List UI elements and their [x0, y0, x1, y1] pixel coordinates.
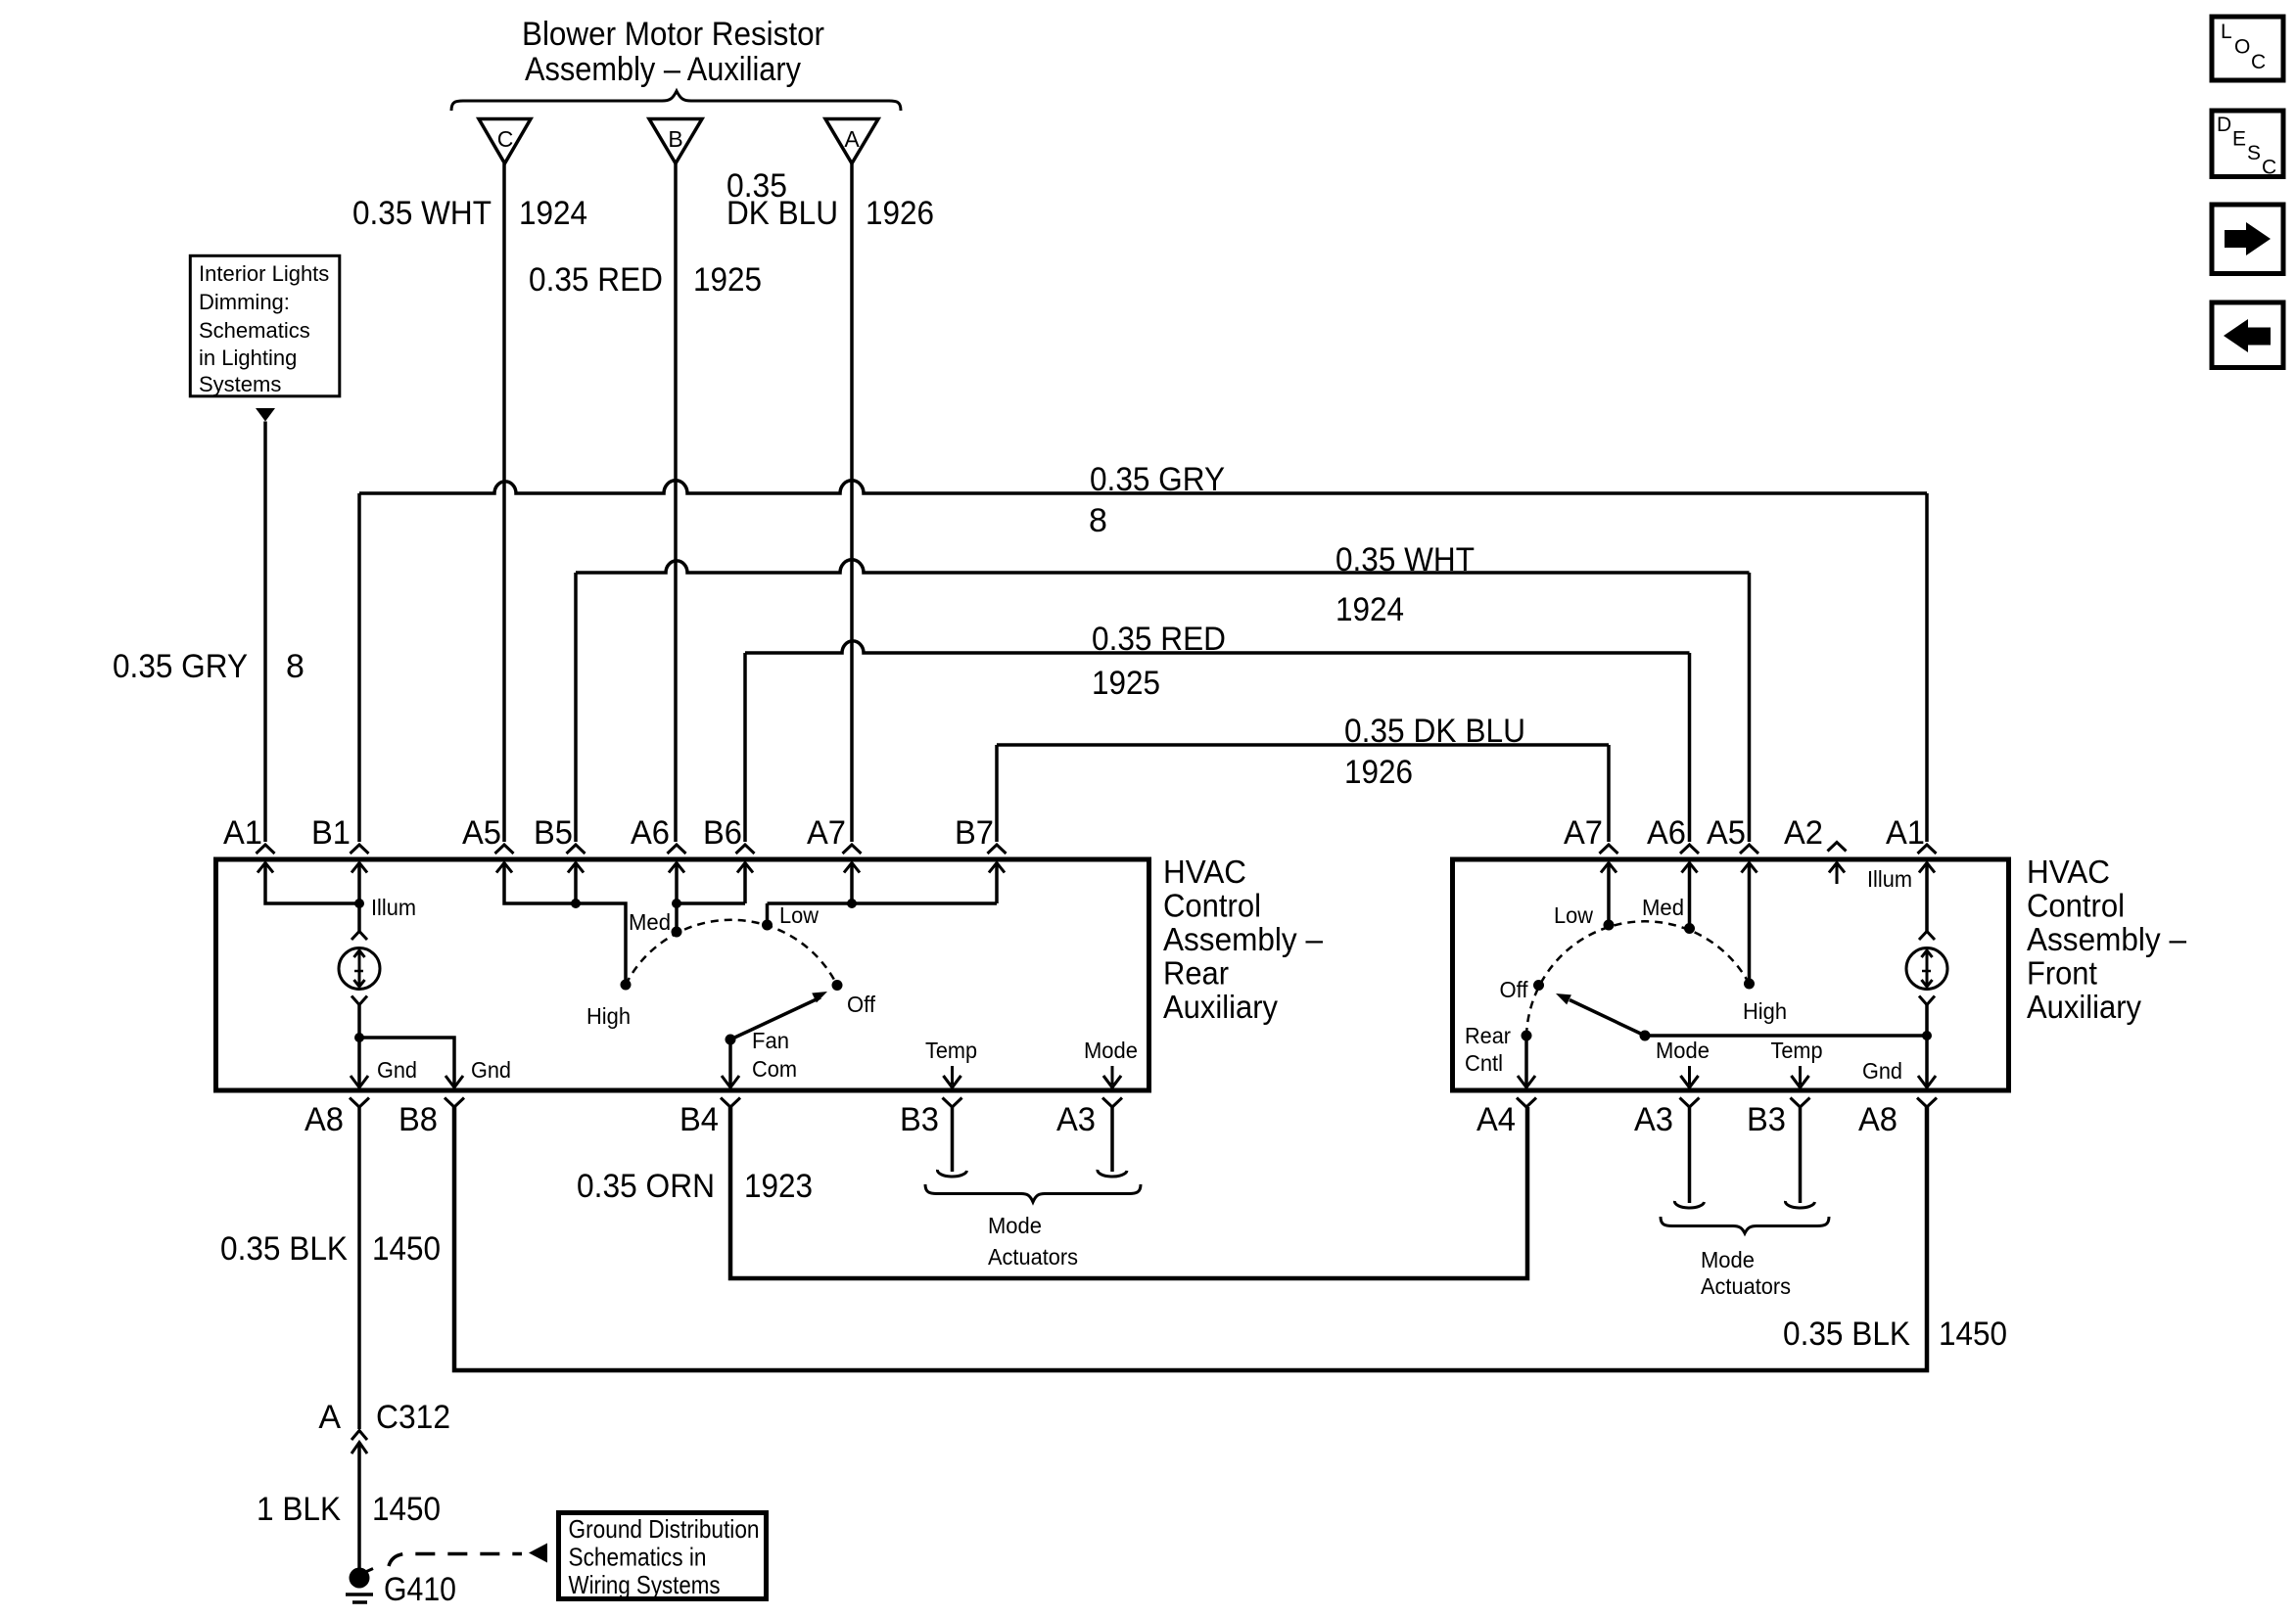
- svg-text:Off: Off: [847, 992, 876, 1017]
- svg-text:A: A: [318, 1399, 341, 1436]
- svg-text:A1: A1: [223, 814, 262, 852]
- svg-text:B3: B3: [900, 1101, 939, 1138]
- svg-text:B: B: [668, 126, 682, 152]
- svg-text:Ground Distribution: Ground Distribution: [569, 1514, 760, 1544]
- svg-text:C: C: [2251, 51, 2266, 73]
- svg-text:S: S: [2247, 142, 2261, 164]
- svg-text:C312: C312: [376, 1399, 450, 1436]
- svg-text:Systems: Systems: [199, 372, 281, 396]
- svg-text:HVAC: HVAC: [1163, 854, 1246, 890]
- svg-text:B7: B7: [955, 814, 994, 852]
- svg-text:C: C: [497, 126, 514, 152]
- svg-text:Auxiliary: Auxiliary: [1163, 989, 1278, 1025]
- svg-text:A3: A3: [1634, 1101, 1673, 1138]
- svg-text:A6: A6: [1647, 814, 1686, 852]
- svg-text:B4: B4: [679, 1101, 719, 1138]
- svg-text:E: E: [2232, 128, 2246, 151]
- svg-text:Assembly –: Assembly –: [1163, 921, 1324, 957]
- svg-text:Actuators: Actuators: [988, 1244, 1078, 1270]
- svg-text:Assembly –: Assembly –: [2027, 921, 2187, 957]
- svg-text:0.35 BLK: 0.35 BLK: [220, 1230, 348, 1268]
- svg-text:DK BLU: DK BLU: [726, 195, 838, 232]
- svg-text:Mode: Mode: [1656, 1038, 1710, 1063]
- svg-text:1925: 1925: [1092, 665, 1160, 702]
- svg-text:Temp: Temp: [925, 1038, 977, 1063]
- svg-text:Blower Motor Resistor: Blower Motor Resistor: [522, 16, 824, 53]
- svg-text:High: High: [1743, 998, 1787, 1024]
- svg-text:0.35 BLK: 0.35 BLK: [1783, 1316, 1910, 1353]
- svg-text:Fan: Fan: [752, 1028, 789, 1053]
- svg-text:1924: 1924: [1335, 591, 1404, 628]
- svg-text:Temp: Temp: [1771, 1038, 1823, 1063]
- svg-text:A4: A4: [1476, 1101, 1516, 1138]
- svg-text:0.35 ORN: 0.35 ORN: [577, 1168, 715, 1205]
- svg-text:G410: G410: [384, 1571, 456, 1608]
- svg-text:High: High: [586, 1003, 631, 1029]
- svg-text:1924: 1924: [519, 195, 587, 232]
- svg-text:Auxiliary: Auxiliary: [2027, 989, 2141, 1025]
- svg-text:Schematics: Schematics: [199, 318, 310, 343]
- svg-text:0.35 RED: 0.35 RED: [1092, 621, 1226, 658]
- svg-text:Med: Med: [1642, 895, 1684, 920]
- svg-text:A8: A8: [1858, 1101, 1898, 1138]
- svg-text:0.35 GRY: 0.35 GRY: [1090, 461, 1225, 498]
- svg-text:A1: A1: [1886, 814, 1925, 852]
- svg-text:A2: A2: [1784, 814, 1823, 852]
- svg-text:Control: Control: [1163, 888, 1261, 924]
- svg-text:Mode: Mode: [1084, 1038, 1138, 1063]
- svg-text:Low: Low: [779, 902, 819, 928]
- svg-text:HVAC: HVAC: [2027, 854, 2110, 890]
- svg-text:0.35 GRY: 0.35 GRY: [113, 648, 248, 685]
- svg-text:1926: 1926: [866, 195, 934, 232]
- svg-text:1450: 1450: [372, 1491, 441, 1528]
- svg-text:Front: Front: [2027, 955, 2097, 992]
- svg-text:Rear: Rear: [1163, 955, 1229, 992]
- svg-text:O: O: [2234, 36, 2250, 59]
- svg-text:D: D: [2217, 114, 2231, 136]
- svg-text:1925: 1925: [693, 261, 762, 299]
- svg-text:Illum: Illum: [371, 895, 416, 920]
- svg-text:B3: B3: [1747, 1101, 1786, 1138]
- svg-text:Gnd: Gnd: [377, 1057, 417, 1083]
- svg-text:Schematics in: Schematics in: [569, 1543, 707, 1572]
- svg-text:in Lighting: in Lighting: [199, 346, 297, 370]
- svg-text:Interior Lights: Interior Lights: [199, 261, 329, 286]
- svg-text:1450: 1450: [1939, 1316, 2007, 1353]
- svg-text:Cntl: Cntl: [1465, 1050, 1503, 1076]
- svg-text:8: 8: [286, 648, 305, 685]
- svg-text:C: C: [2262, 157, 2276, 179]
- svg-text:Off: Off: [1500, 977, 1529, 1002]
- svg-text:Gnd: Gnd: [1862, 1058, 1902, 1084]
- svg-text:Wiring Systems: Wiring Systems: [569, 1570, 721, 1599]
- svg-text:A5: A5: [1707, 814, 1746, 852]
- svg-text:1 BLK: 1 BLK: [257, 1491, 341, 1528]
- svg-text:Actuators: Actuators: [1701, 1273, 1791, 1299]
- svg-text:1923: 1923: [744, 1168, 813, 1205]
- svg-text:L: L: [2221, 21, 2232, 43]
- svg-text:0.35 RED: 0.35 RED: [529, 261, 663, 299]
- svg-text:A5: A5: [462, 814, 501, 852]
- svg-text:Mode: Mode: [1701, 1247, 1755, 1272]
- svg-text:Illum: Illum: [1867, 866, 1912, 892]
- svg-text:A7: A7: [807, 814, 846, 852]
- svg-text:0.35 WHT: 0.35 WHT: [1335, 541, 1475, 578]
- svg-text:1450: 1450: [372, 1230, 441, 1268]
- svg-text:B5: B5: [534, 814, 573, 852]
- svg-text:0.35 DK BLU: 0.35 DK BLU: [1344, 713, 1525, 750]
- svg-text:0.35 WHT: 0.35 WHT: [352, 195, 492, 232]
- svg-text:8: 8: [1089, 502, 1107, 539]
- svg-text:A7: A7: [1564, 814, 1603, 852]
- svg-text:1926: 1926: [1344, 754, 1413, 791]
- svg-text:Mode: Mode: [988, 1213, 1042, 1238]
- svg-text:A3: A3: [1056, 1101, 1096, 1138]
- svg-text:Med: Med: [629, 909, 671, 935]
- svg-text:A: A: [844, 126, 860, 152]
- svg-text:Control: Control: [2027, 888, 2125, 924]
- svg-text:A6: A6: [631, 814, 670, 852]
- svg-text:Assembly – Auxiliary: Assembly – Auxiliary: [525, 51, 801, 88]
- svg-text:B1: B1: [311, 814, 351, 852]
- svg-text:A8: A8: [305, 1101, 344, 1138]
- svg-text:Gnd: Gnd: [471, 1057, 511, 1083]
- svg-text:Dimming:: Dimming:: [199, 290, 290, 314]
- svg-text:Com: Com: [752, 1056, 797, 1082]
- svg-text:B6: B6: [703, 814, 742, 852]
- svg-text:Low: Low: [1554, 902, 1593, 928]
- svg-text:Rear: Rear: [1465, 1023, 1511, 1048]
- svg-text:B8: B8: [398, 1101, 438, 1138]
